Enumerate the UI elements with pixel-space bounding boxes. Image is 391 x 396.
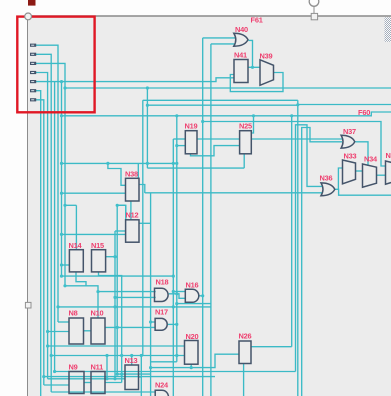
wire net N8 input y331.5 (48, 331, 69, 333)
gate N37 (341, 135, 355, 148)
wire net N20 input y346 (48, 345, 185, 347)
wire vertical x107 (106, 356, 108, 379)
junction y276.1 x173.3 (172, 275, 175, 278)
wire net U x295.5 to N36 lower input (296, 125, 323, 372)
wire net N17 lower input (105, 326, 155, 328)
junction N19 in2 (175, 144, 178, 147)
wire net N11 out (105, 382, 122, 384)
svg-text:N39: N39 (260, 52, 273, 61)
svg-text:N11: N11 (91, 363, 104, 372)
flip-flop N12 (126, 220, 139, 242)
wire pin1 to vertical x58 (36, 45, 58, 322)
wire net N40 input B (211, 43, 236, 45)
junction y374.1 x117.2 (116, 373, 119, 376)
junction y125.8 x202.7 (201, 120, 204, 123)
wire net N17 upper input (151, 321, 156, 323)
flip-flop N11 (91, 372, 105, 394)
gate N24 partial (155, 390, 168, 396)
svg-text:N20: N20 (186, 332, 199, 341)
wire net y100.3 bus (143, 99, 298, 101)
junction y355.5 x141.3 (140, 354, 143, 357)
svg-text:N16: N16 (186, 281, 199, 290)
svg-text:N36: N36 (320, 174, 333, 183)
wire net y276.1 (62, 275, 174, 277)
junction y265 x61.5 (60, 263, 63, 266)
wire pin7 to vertical x43.8 (36, 100, 44, 385)
junction y376.6 x43.8 (42, 375, 45, 378)
rotate handle stem (313, 6, 315, 14)
wire net N19 input 2 (177, 145, 186, 147)
svg-text:N15: N15 (91, 241, 104, 250)
mux N39 (260, 60, 274, 86)
wire net y378.8 to N13 (48, 378, 125, 380)
gate N40 (234, 33, 248, 46)
flip-flop N38 (126, 178, 140, 201)
gate N16 (185, 289, 199, 302)
svg-text:N10: N10 (91, 309, 104, 318)
wire net N12 top feed (125, 205, 127, 220)
svg-text:N33: N33 (344, 152, 357, 161)
wire net N8 input y322 (58, 321, 69, 323)
wire net N33 input (338, 168, 342, 189)
junction y276.1 x61.5 (60, 275, 63, 278)
wire net y193 to N36 (145, 192, 322, 194)
mux N35 partial (386, 161, 391, 184)
wire vertical x117.2 (116, 205, 118, 374)
junction y355.5 x51.2 (50, 354, 53, 357)
wire net y105.2 bus (147, 104, 297, 106)
pin input 5 (30, 80, 36, 83)
mux N33 (343, 160, 356, 184)
wire net N38 bottom jog to N12 (117, 205, 126, 220)
wire net N36 output (335, 189, 391, 195)
svg-text:N34: N34 (364, 155, 378, 164)
wire vertical x173.3 (172, 139, 174, 396)
wire net y168.1 right (147, 167, 244, 169)
wire net y104.5 bus right (298, 104, 391, 106)
junction y115.8 x291.7 (290, 114, 293, 117)
svg-text:N41: N41 (234, 51, 247, 60)
junction y163.4 x107.9 (106, 162, 109, 165)
wire net N25 second output riser (251, 116, 253, 133)
junction y285.8 x65 (63, 284, 66, 287)
flip-flop N25 (240, 131, 252, 154)
svg-text:F60: F60 (358, 108, 370, 117)
wire net N17 output (168, 323, 177, 325)
wire pin2 to vertical x51.2 (36, 54, 51, 392)
wire net N12 right input (139, 222, 151, 224)
wire net N34 output to N35 (377, 174, 386, 176)
junction y374.1 x121.7 (120, 373, 123, 376)
junction y163.4 x173.3 (172, 162, 175, 165)
junction N41 out node (251, 66, 254, 69)
wire net N26 feed (151, 354, 239, 367)
wire net N39 feedback loop (230, 73, 283, 92)
wire net N37 output (356, 142, 369, 166)
wire net y376.6 (44, 376, 215, 378)
flip-flop N20 (185, 341, 199, 365)
junction y371.5 x54.6 (53, 370, 56, 373)
wire net N16 upper input (173, 291, 185, 293)
wire net N9 input y385 (44, 384, 69, 386)
selection red rectangle (17, 17, 94, 113)
wire net N34 top feed bus (203, 122, 386, 167)
svg-text:N13: N13 (125, 356, 138, 365)
flip-flop N10 (91, 318, 105, 344)
wire net N12 left feed (115, 230, 126, 232)
wire net y193 left (62, 192, 126, 194)
flip-flop N26 (239, 341, 251, 364)
junction N18 out x176.8 (175, 292, 178, 295)
junction N8 in2 x47.6 (46, 330, 49, 333)
junction N26 feed x150.6 (149, 366, 152, 369)
wire net N18 lower input (115, 296, 156, 298)
wire net N38 output (139, 185, 145, 194)
wire net N15 output (99, 272, 122, 383)
wire net N14 top feed (75, 205, 77, 249)
top handle square (311, 13, 317, 19)
junction N17 in x150.6 (149, 320, 152, 323)
pin input 3 (30, 62, 36, 65)
junction y355.5 x131.7 (130, 354, 133, 357)
wire vertical x297.8 long (297, 100, 299, 396)
junction y115.8 x176.8 (175, 114, 178, 117)
wire net N40 output (249, 40, 253, 67)
wire pin5 horizontal y81.6 to N41 (36, 78, 234, 82)
junction y327.4 x117.2 (116, 326, 119, 329)
wire net y374.1 (117, 373, 150, 375)
svg-text:N26: N26 (239, 332, 252, 341)
junction y303.6 x176.8 (175, 302, 178, 305)
wire vertical x61.5 (61, 82, 63, 277)
junction y306.9 x115 (113, 305, 116, 308)
pin input 4 (30, 71, 36, 74)
wire net N18 upper input (98, 291, 156, 293)
junction y115.8 x61.5 (60, 114, 63, 117)
svg-text:N40: N40 (235, 25, 248, 34)
wire net N12 input y234.4 (62, 233, 126, 235)
junction y378.8 x107 (105, 377, 108, 380)
svg-text:F61: F61 (251, 16, 263, 25)
junction y104.5 x297.8 (296, 103, 299, 106)
flip-flop N14 (69, 250, 83, 272)
wire net y205.3 jog at N12 (117, 204, 126, 206)
wire net N33 output to N34 (356, 170, 363, 172)
flip-flop N8 (69, 318, 84, 344)
junction N17 out x176.8 (175, 323, 178, 326)
wire net N26 bottom (243, 364, 245, 396)
junction y355.5 x176.8 (175, 354, 178, 357)
wire net y163.4 (62, 162, 177, 164)
junction y163.4 x176.8 (175, 162, 178, 165)
junction N16 in x173.3 (172, 290, 175, 293)
junction y193.2 x61.5 (60, 192, 63, 195)
scrollbar hatch (385, 17, 391, 42)
dark red square marker (28, 0, 36, 6)
svg-text:N25: N25 (239, 122, 252, 131)
sheet top border (28, 15, 391, 17)
wire net y306.9 bus (58, 306, 211, 308)
wire net N14 top feed (65, 204, 76, 206)
wire pin6 to vertical x40.7 (36, 91, 41, 396)
junction y163.4 x147.4 (146, 162, 149, 165)
junction pin5 branch (60, 80, 63, 83)
wire net y361.8 stub (151, 361, 177, 363)
wire net N25 out bus right (251, 138, 342, 140)
corner handle circle top-left (25, 13, 32, 20)
junction y297.4 x115 (113, 296, 116, 299)
junction y205.3 x65 (63, 204, 66, 207)
wire vertical x202.7 (202, 38, 204, 396)
wire net y303.6 (177, 303, 211, 305)
pin input 2 (30, 53, 36, 56)
rotate handle circle top (309, 0, 319, 6)
svg-text:N14: N14 (69, 241, 83, 250)
svg-text:N3: N3 (386, 151, 391, 160)
wire net y88 bus (65, 87, 391, 89)
junction y234.4 x61.5 (60, 233, 63, 236)
gate N36 (321, 183, 335, 196)
junction y115.8 x253.5 (252, 114, 255, 117)
junction y346 x47.6 (46, 344, 49, 347)
wire net N24 input y392 (51, 391, 155, 393)
wire net N16 output (199, 295, 203, 297)
wire vertical x176.8 (176, 116, 178, 362)
svg-text:N18: N18 (156, 278, 169, 287)
wire net y115.8 bus (62, 112, 391, 116)
wire net N14 output to N10 (76, 272, 98, 318)
junction y378.8 x115 (113, 377, 116, 380)
junction y88 x147.4 (146, 86, 149, 89)
mux N34 (363, 164, 377, 187)
junction y306.9 x173.3 (172, 305, 175, 308)
pin input 1 (30, 44, 36, 47)
wire net N38 top input (137, 163, 139, 178)
flip-flop N13 (125, 365, 139, 390)
wire net N15 right to x115 (106, 256, 115, 258)
wire net N38 bottom to N12 (130, 201, 132, 220)
wire net N38 left input (108, 163, 126, 185)
wire net N13 top feed (131, 356, 133, 366)
wire vertical x54.6 (54, 82, 56, 372)
junction y355.5 x107 (105, 354, 108, 357)
wire net N25 bottom out (243, 154, 245, 168)
gate N18 (155, 288, 169, 301)
svg-text:N38: N38 (125, 170, 138, 179)
wire net N41 output to N39 (248, 66, 260, 68)
wire pin4 to vertical x47.6 (36, 73, 48, 379)
wire net N20 bottom (190, 364, 192, 367)
wire net N19 bottom to N25 (191, 146, 240, 156)
pin input 7 (30, 98, 36, 101)
sheet left border (27, 16, 29, 396)
wire net N26 out vertical riser (291, 116, 293, 347)
svg-text:N37: N37 (343, 127, 356, 136)
junction y88 start (63, 86, 66, 89)
junction N15 right x115 (113, 255, 116, 258)
flip-flop N41 (234, 60, 248, 83)
junction y163.4 x61.5 (60, 162, 63, 165)
wire vertical x147.4 (146, 88, 148, 168)
wire net N8 to N10 (84, 330, 92, 332)
svg-text:N19: N19 (185, 122, 198, 131)
wire net N14 input y265 (62, 264, 70, 266)
junction y306.9 x58 (56, 305, 59, 308)
gate N17 (155, 318, 167, 330)
wire vertical x150.6 (150, 193, 152, 396)
junction N16 out x202.7 (201, 294, 204, 297)
svg-text:N17: N17 (155, 308, 168, 317)
wire vertical x115 (114, 231, 116, 379)
flip-flop N15 (92, 250, 106, 272)
wire net N19 out to N25 (197, 138, 240, 140)
svg-text:N24: N24 (155, 381, 169, 390)
junction N20 bottom on N26 feed (190, 366, 193, 369)
svg-text:N8: N8 (69, 309, 78, 318)
wire net U x301.7 to N37 input B (302, 128, 342, 396)
wire vertical x210.9 (210, 44, 212, 396)
junction y105.2 x147.4 (146, 104, 149, 107)
wire pin3 to vertical x65 (36, 63, 65, 285)
wire net N26 output (251, 346, 292, 348)
wire net N9 to N11 (84, 382, 91, 384)
wire net y355.5 bus to N20 (51, 355, 184, 357)
wire vertical x142.8 (142, 100, 144, 355)
wire net N18 output to N16 (169, 294, 186, 299)
wire vertical x141.3 (140, 356, 142, 396)
pin input 6 (30, 89, 36, 92)
wire net y285.8 (65, 285, 86, 287)
flip-flop N19 (185, 131, 197, 154)
wire net N40 input A (203, 37, 236, 39)
side handle square left (25, 302, 31, 308)
junction y355.5 x121.7 (120, 354, 123, 357)
wire net N13 right out (139, 376, 142, 378)
wire net y139 bus to N19 (173, 138, 185, 140)
wire net y371.5 bus (55, 371, 296, 373)
junction y205.3 x117.2 (116, 204, 119, 207)
svg-text:N12: N12 (126, 211, 139, 220)
svg-text:N9: N9 (69, 363, 78, 372)
flip-flop N9 (69, 372, 84, 394)
junction N18 in x98 (96, 290, 99, 293)
